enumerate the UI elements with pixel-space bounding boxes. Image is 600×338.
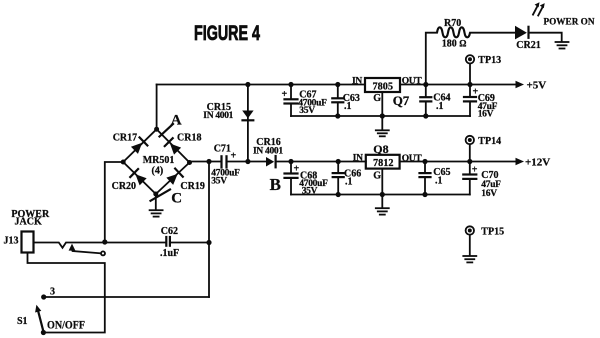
regulator Q8 7812 <box>366 155 400 169</box>
label S1 <box>17 316 28 327</box>
svg-text:S1: S1 <box>17 316 28 327</box>
label C68 <box>300 170 317 181</box>
label C69 <box>478 93 495 104</box>
label C66 <box>344 169 361 180</box>
svg-text:16V: 16V <box>478 110 494 120</box>
value 16V (C70) <box>481 189 497 199</box>
value 35V (C71) <box>211 176 227 186</box>
label C62 <box>161 226 178 237</box>
label C63 <box>343 93 360 104</box>
capacitor C70 <box>463 162 478 195</box>
svg-text:G: G <box>373 93 381 104</box>
capacitor C65 <box>420 162 431 195</box>
value 4700uF <box>298 98 327 108</box>
bridge left vertex dot <box>121 160 126 165</box>
label Q8 <box>373 142 388 156</box>
svg-text:Q7: Q7 <box>393 93 410 108</box>
junction dot C66 top <box>336 159 341 164</box>
bridge edge L-B <box>123 162 156 194</box>
pin IN (7805) <box>352 77 362 87</box>
wire jack sleeve path <box>28 253 105 333</box>
svg-text:CR20: CR20 <box>112 181 136 192</box>
node A vertex dot <box>154 127 159 132</box>
diode CR17 <box>131 137 148 154</box>
wire 12V ground rail <box>291 194 470 196</box>
connector J13 power jack <box>22 232 34 253</box>
wire jack tip with switch notch <box>34 243 166 248</box>
ground (TP15) <box>463 256 476 262</box>
label TP14 <box>478 136 501 147</box>
label B <box>270 175 281 194</box>
junction dot C63 bottom <box>335 113 340 118</box>
junction dot C64 bottom <box>423 113 428 118</box>
value .1 <box>344 101 352 112</box>
label C71 <box>214 143 231 154</box>
label C65 <box>433 167 450 178</box>
svg-text:+: + <box>294 164 300 175</box>
label MR501 <box>143 155 175 166</box>
junction dot C65 top <box>422 159 427 164</box>
svg-text:FIGURE 4: FIGURE 4 <box>194 22 260 45</box>
svg-text:(4): (4) <box>152 165 164 176</box>
junction dot C63 top <box>335 82 340 87</box>
svg-text:CR17: CR17 <box>113 132 137 143</box>
junction dot C66 bottom <box>336 192 341 197</box>
wire x209 vertical <box>208 162 210 298</box>
svg-text:16V: 16V <box>481 189 497 199</box>
node 3 dot <box>41 294 46 299</box>
capacitor C68 <box>285 162 300 195</box>
label POWER <box>11 209 50 220</box>
capacitor C64 <box>420 85 431 117</box>
svg-text:CR21: CR21 <box>516 40 540 51</box>
capacitor C71 <box>222 151 267 168</box>
LED emission arrows <box>533 2 545 15</box>
diode CR18 <box>165 138 182 155</box>
svg-text:IN: IN <box>353 153 363 163</box>
junction dot x209 top <box>206 159 211 164</box>
ground (7805) <box>376 130 389 136</box>
pin G (7812) <box>373 171 381 182</box>
label CR18 <box>177 133 201 144</box>
wire 7812 G pin <box>381 169 383 208</box>
label TP15 <box>481 227 504 238</box>
value 47uF (C70) <box>481 180 501 190</box>
svg-text:35V: 35V <box>299 106 315 116</box>
value 4700uF (C68) <box>299 179 328 189</box>
switch S1 arm <box>35 305 43 332</box>
+5V arrowhead <box>516 81 525 88</box>
label A <box>171 113 182 129</box>
switch S1 bottom terminal dot <box>41 330 46 335</box>
wire CR16 to 7812 IN <box>276 161 366 163</box>
svg-text:TP13: TP13 <box>478 55 501 66</box>
svg-text:Q8: Q8 <box>373 142 388 156</box>
label C70 <box>481 170 498 181</box>
+12V arrowhead <box>516 158 525 165</box>
wire 7805 OUT rail (+5V) <box>400 84 516 86</box>
node C tick <box>151 190 171 201</box>
svg-text:.1: .1 <box>345 176 353 187</box>
svg-text:OUT: OUT <box>402 154 423 164</box>
junction dot CR15 bottom <box>245 159 250 164</box>
value .1 (C65) <box>435 175 443 186</box>
junction dot C65 bottom <box>422 192 427 197</box>
label CR20 <box>112 181 136 192</box>
svg-text:3: 3 <box>50 287 55 298</box>
wire bridge left vertex to jack line <box>105 162 123 242</box>
junction dot C70/TP14 <box>467 159 472 164</box>
svg-text:B: B <box>270 175 281 194</box>
label R70 <box>444 18 461 29</box>
jack switch contact arrow <box>69 244 105 256</box>
svg-text:POWER ON: POWER ON <box>544 17 595 27</box>
svg-text:IN 4001: IN 4001 <box>203 111 233 121</box>
net label +12V <box>525 156 550 168</box>
value 35V <box>299 106 315 116</box>
label 3 <box>50 287 55 298</box>
svg-text:.1: .1 <box>436 101 444 112</box>
pin IN (7812) <box>353 153 363 163</box>
value 47uF <box>478 102 498 112</box>
svg-text:7812: 7812 <box>373 157 394 169</box>
junction dot C69/TP13 <box>467 82 472 87</box>
svg-text:180 Ω: 180 Ω <box>442 39 467 50</box>
pin G (7805) <box>373 93 381 104</box>
label CR19 <box>180 181 204 192</box>
label CR21 <box>516 40 540 51</box>
label J13 <box>4 235 19 246</box>
bridge rectifier MR501: edge T-L <box>123 129 156 162</box>
title FIGURE 4 <box>194 22 260 45</box>
value 35V (C68) <box>302 187 318 197</box>
label TP13 <box>478 55 501 66</box>
svg-text:+: + <box>231 151 237 162</box>
capacitor C66 <box>333 162 344 195</box>
svg-text:JACK: JACK <box>15 217 42 228</box>
svg-text:.1: .1 <box>344 101 352 112</box>
capacitor C62 <box>166 237 209 246</box>
svg-text:35V: 35V <box>302 187 318 197</box>
junction dot G-rail (12V) <box>380 192 385 197</box>
value 180 ohms <box>442 39 467 50</box>
value .1 <box>436 101 444 112</box>
svg-text:+5V: +5V <box>527 80 547 92</box>
capacitor C63 <box>332 85 343 117</box>
bridge edge T-R <box>157 129 190 162</box>
svg-text:+12V: +12V <box>525 156 550 168</box>
diode CR21 (LED) <box>515 26 529 40</box>
svg-text:35V: 35V <box>211 176 227 186</box>
junction dot C62/x209 <box>206 240 211 245</box>
value 4700uF (C71) <box>211 168 240 178</box>
value CR16 IN 4001 <box>253 146 283 156</box>
svg-text:J13: J13 <box>4 235 19 246</box>
svg-text:A: A <box>171 113 182 129</box>
svg-text:G: G <box>373 171 381 182</box>
test point TP13 <box>466 55 474 84</box>
wire CR15 branch <box>247 85 249 162</box>
svg-text:TP15: TP15 <box>481 227 504 238</box>
wire node 3 rail <box>44 296 209 298</box>
svg-text:OUT: OUT <box>402 77 423 87</box>
net label +5V <box>527 80 547 92</box>
wire 5V ground rail <box>291 115 470 117</box>
wire node A riser <box>156 85 158 130</box>
label CR16 <box>256 137 280 148</box>
wire 7805 G pin <box>381 92 383 130</box>
svg-text:+: + <box>282 89 288 100</box>
svg-text:IN 4001: IN 4001 <box>253 146 283 156</box>
ground (bridge) <box>150 210 163 216</box>
svg-text:R70: R70 <box>444 18 461 29</box>
label Q7 <box>393 93 410 108</box>
bridge right vertex dot <box>187 160 192 165</box>
junction dot C68 top <box>288 159 293 164</box>
svg-text:IN: IN <box>352 77 362 87</box>
svg-text:C71: C71 <box>214 143 231 154</box>
diode CR15 <box>242 111 253 121</box>
value .1 (C66) <box>345 176 353 187</box>
label (4) <box>152 165 164 176</box>
svg-text:7805: 7805 <box>373 80 394 92</box>
diode CR19 <box>166 169 183 186</box>
svg-text:CR18: CR18 <box>177 133 201 144</box>
ground (power-on LED) <box>556 42 569 49</box>
resistor R70 <box>426 27 515 84</box>
value .1uF <box>160 248 179 259</box>
junction dot jack/bridge-left <box>102 239 107 244</box>
svg-text:TP14: TP14 <box>478 136 501 147</box>
label CR17 <box>113 132 137 143</box>
capacitor C69 <box>464 85 479 117</box>
label JACK <box>15 217 42 228</box>
svg-text:.1uF: .1uF <box>160 248 179 259</box>
label C67 <box>299 89 316 100</box>
junction dot CR15 top <box>245 82 250 87</box>
wire C71 rail <box>190 162 221 163</box>
svg-text:+: + <box>472 165 478 176</box>
value 16V <box>478 110 494 120</box>
svg-text:C62: C62 <box>161 226 178 237</box>
svg-text:.1: .1 <box>435 175 443 186</box>
pin OUT (7805) <box>402 77 423 87</box>
label ON/OFF <box>47 320 85 332</box>
svg-text:C: C <box>171 191 182 207</box>
junction dot C67 top <box>288 82 293 87</box>
wire CR21 to ground <box>529 33 562 42</box>
regulator U Q7 7805 <box>365 78 400 92</box>
label C64 <box>433 93 450 104</box>
label C <box>171 191 182 207</box>
label CR15 <box>207 102 231 113</box>
junction dot C64/R70 top <box>423 82 428 87</box>
wire bridge C to ground <box>155 194 157 210</box>
wire top rail (node A to 7805 IN) <box>157 84 365 86</box>
diode CR20 <box>130 169 147 186</box>
junction dot G-rail (5V) <box>380 113 385 118</box>
test point TP15 <box>466 226 474 255</box>
pin OUT (7812) <box>402 154 423 164</box>
label POWER ON <box>544 17 595 27</box>
capacitor C67 <box>282 85 298 117</box>
svg-text:CR19: CR19 <box>180 181 204 192</box>
ground (7812) <box>376 208 389 214</box>
value CR15 IN 4001 <box>203 111 233 121</box>
bridge edge B-R <box>156 163 190 195</box>
diode CR16 <box>266 156 276 167</box>
wire 7812 OUT rail (+12V) <box>400 161 516 163</box>
test point TP14 <box>466 136 474 162</box>
node A tick <box>160 124 174 137</box>
svg-text:ON/OFF: ON/OFF <box>47 320 85 332</box>
node C vertex dot <box>153 192 158 197</box>
